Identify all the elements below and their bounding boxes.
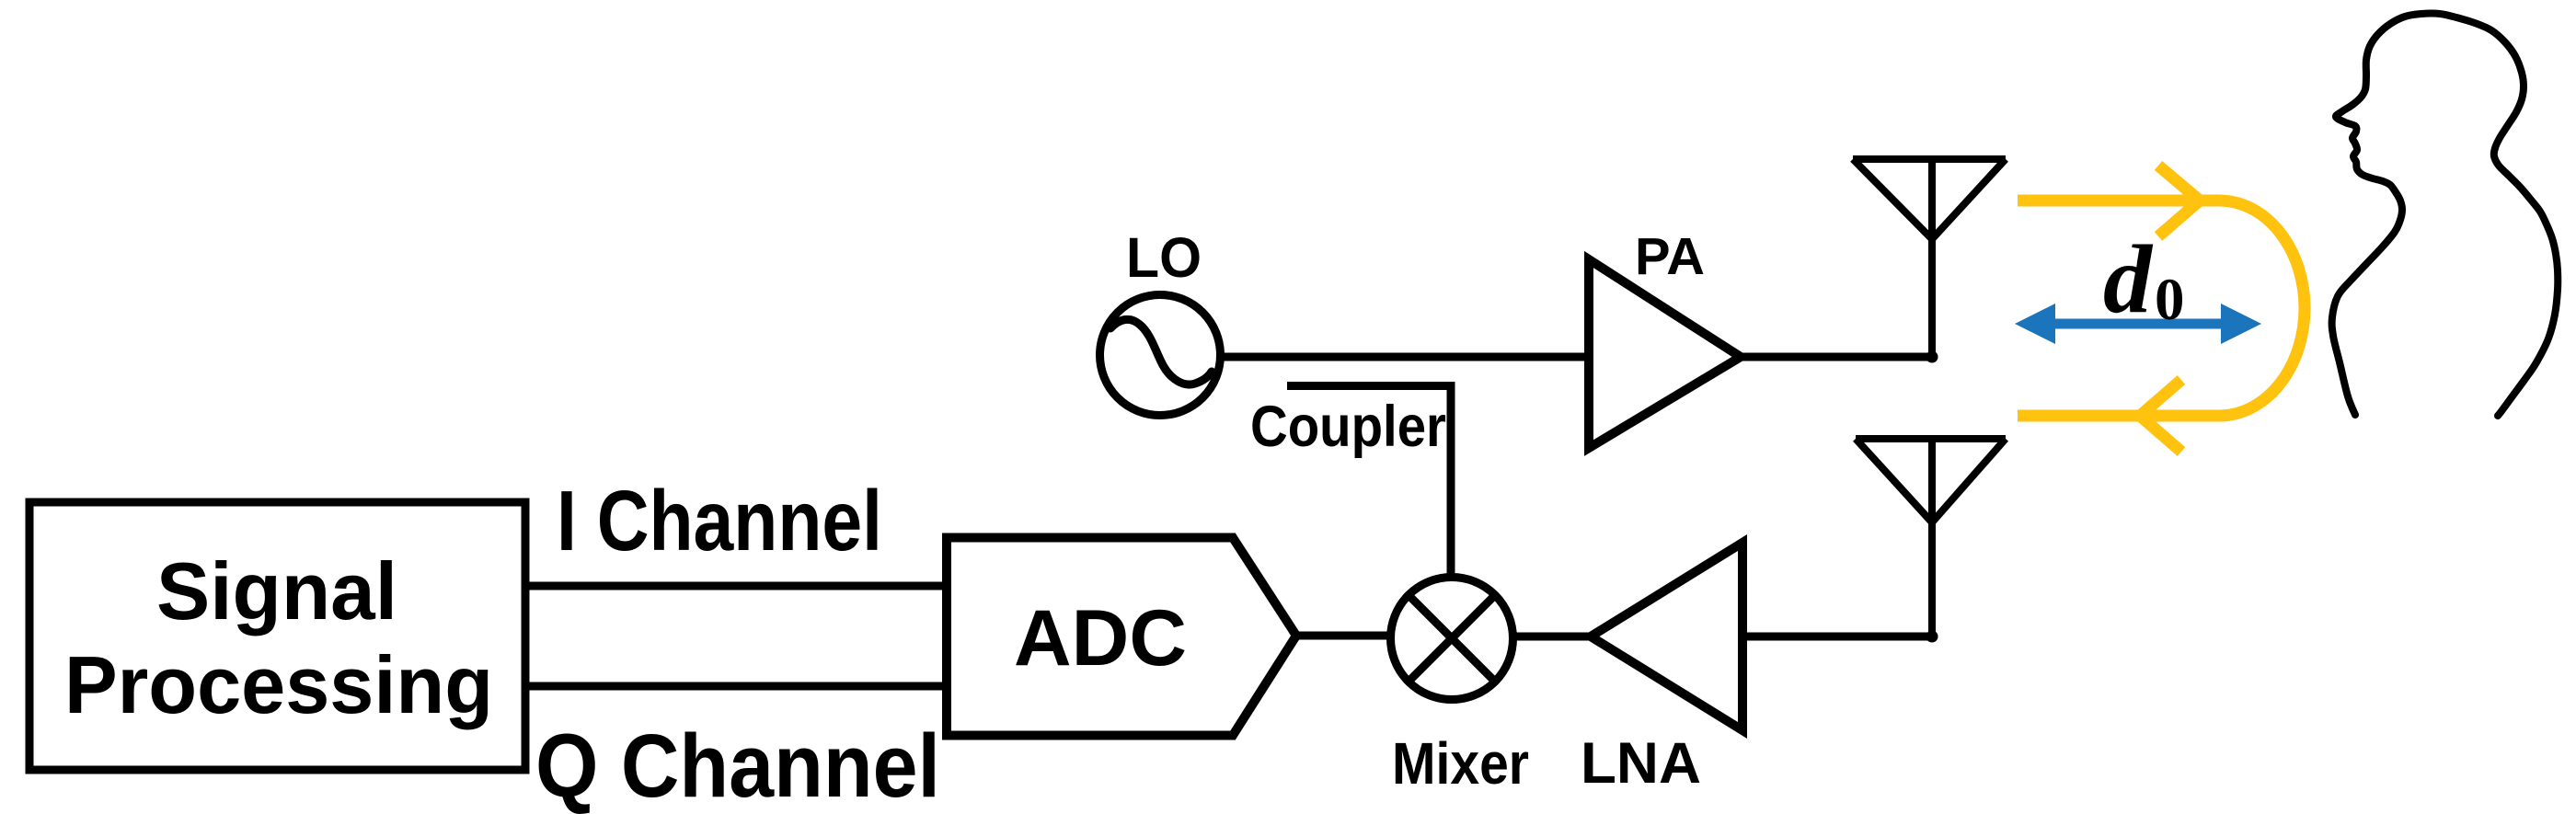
svg-text:Q Channel: Q Channel [535,716,940,814]
junction TX [1926,351,1938,363]
svg-text:d: d [2103,225,2154,333]
mixer U2 [1391,578,1513,700]
svg-text:I Channel: I Channel [557,473,882,568]
distance arrow d0 (blue) [2015,304,2261,344]
person silhouette [2332,14,2559,416]
svg-text:0: 0 [2155,267,2185,333]
antenna TX [1853,159,2006,357]
svg-text:Mixer: Mixer [1392,730,1529,797]
wire PA to TX antenna [1737,353,1932,361]
wire LNA to RX antenna [1739,633,1932,641]
svg-text:LO: LO [1126,226,1202,289]
svg-text:ADC: ADC [1014,594,1187,682]
svg-text:Processing: Processing [64,639,493,730]
signal processing box U1 [29,502,525,770]
svg-text:PA: PA [1635,227,1705,286]
svg-text:LNA: LNA [1581,731,1701,796]
wire Q channel [525,682,950,691]
svg-text:Signal: Signal [156,545,397,636]
junction RX [1926,631,1938,643]
TX signal arrow (yellow) [2018,166,2305,452]
svg-text:Coupler: Coupler [1250,395,1446,459]
wire I channel [525,582,950,590]
amplifier PA [1589,259,1741,448]
wire mixer to LNA [1511,633,1593,641]
antenna RX [1856,439,2006,636]
amplifier LNA [1591,543,1742,730]
wire ADC to mixer [1296,632,1395,640]
oscillator LO [1100,295,1221,416]
wire LO to PA [1221,353,1593,361]
ADC block [947,538,1296,736]
sine wave inside LO [1110,319,1212,384]
coupler line [1287,386,1451,580]
